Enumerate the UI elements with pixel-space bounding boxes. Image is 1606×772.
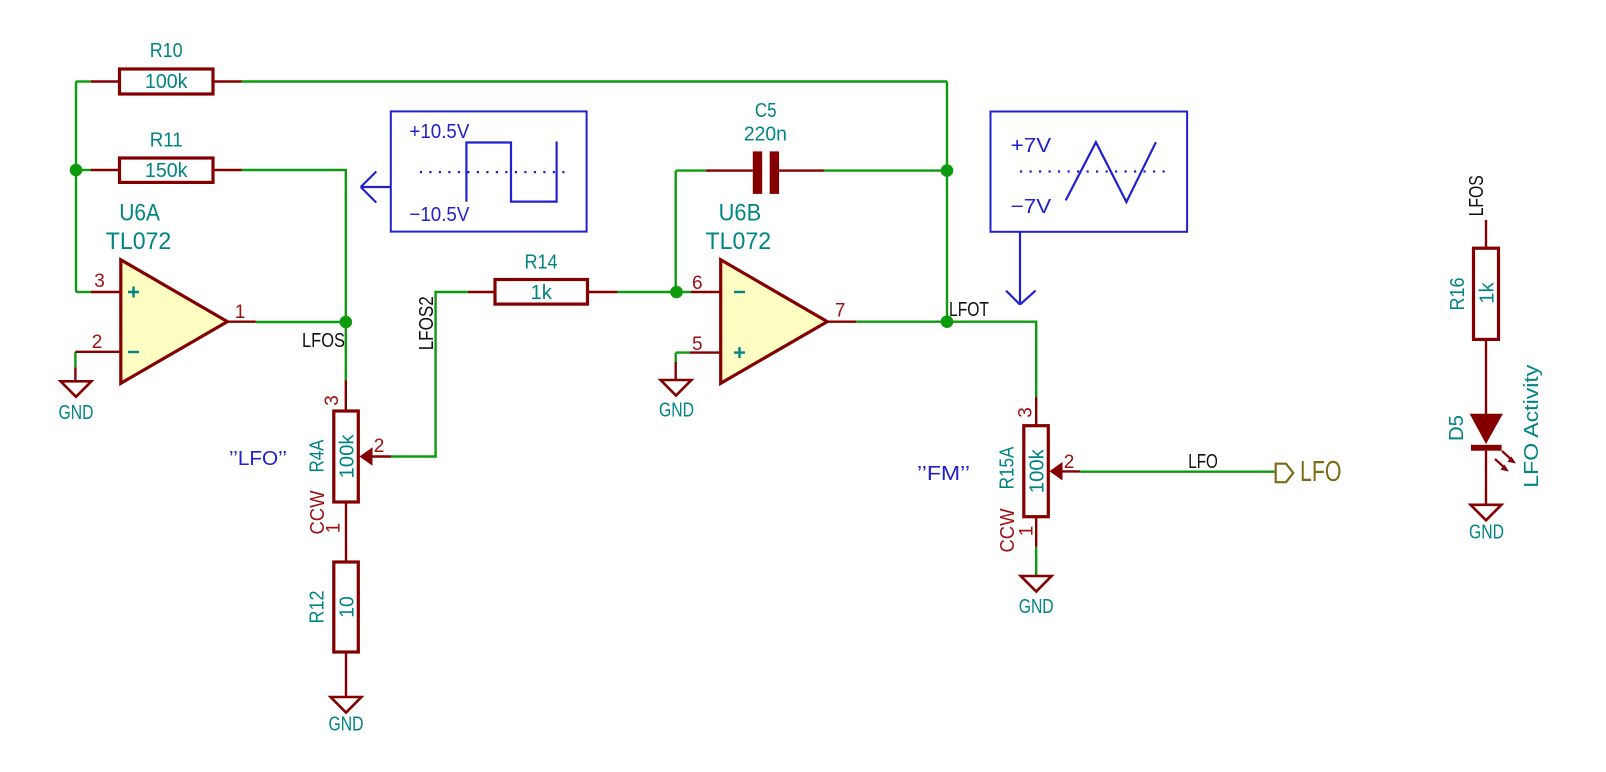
- svg-text:1k: 1k: [1476, 281, 1498, 303]
- wire U6A pin3 stub: [76, 291, 91, 293]
- svg-text:R10: R10: [150, 40, 183, 62]
- svg-text:2: 2: [374, 436, 385, 457]
- ground under R15A: [1019, 576, 1054, 618]
- resistor R16: [1447, 220, 1498, 415]
- svg-text:LFO: LFO: [1188, 451, 1218, 473]
- wire R4A wiper to LFOS2 riser to R14: [391, 292, 468, 457]
- svg-text:CCW: CCW: [307, 490, 329, 534]
- wire node A vertical (R10/R11/pin3 bus): [75, 82, 77, 293]
- svg-text:C5: C5: [755, 100, 777, 122]
- wire U6A pin2 corner: [74, 352, 76, 368]
- svg-text:LFOS: LFOS: [1466, 175, 1488, 216]
- ground under R12: [329, 697, 364, 736]
- svg-text:100k: 100k: [336, 433, 358, 478]
- LED D5: [1446, 415, 1516, 504]
- svg-text:100k: 100k: [1026, 448, 1048, 493]
- svg-text:LFOS: LFOS: [302, 330, 345, 352]
- resistor R10: [91, 40, 242, 94]
- svg-text:1k: 1k: [531, 282, 553, 304]
- wire U6B output to LFOT node: [856, 321, 947, 323]
- svg-text:CCW: CCW: [997, 508, 1019, 552]
- svg-text:LFO Activity: LFO Activity: [1521, 365, 1543, 488]
- svg-text:U6A: U6A: [119, 199, 160, 226]
- wire R10 right to top-right corner: [242, 80, 948, 82]
- wire U6A output to LFOS node: [256, 321, 346, 323]
- op-amp U6B: [690, 199, 856, 383]
- svg-text:220n: 220n: [744, 124, 787, 146]
- resistor R11: [91, 130, 242, 183]
- svg-text:GND: GND: [329, 714, 364, 736]
- arrow to LFOS wire: [361, 172, 391, 203]
- junction node at C5 right: [941, 164, 954, 177]
- svg-text:2: 2: [92, 332, 103, 353]
- junction node LFOS: [340, 316, 353, 329]
- svg-text:−10.5V: −10.5V: [409, 204, 470, 226]
- svg-text:6: 6: [692, 273, 703, 294]
- svg-text:5: 5: [692, 334, 703, 355]
- svg-text:R11: R11: [150, 130, 183, 152]
- svg-text:1: 1: [235, 302, 246, 323]
- ground under U6B pin5: [659, 362, 694, 422]
- waveform annotation box triangle wave: [991, 112, 1188, 305]
- svg-text:−7V: −7V: [1011, 196, 1052, 218]
- wire R15A wiper to LFO port: [1080, 471, 1276, 473]
- svg-text:10: 10: [336, 596, 358, 617]
- global label port LFO: [1276, 456, 1342, 488]
- svg-text:LFOS2: LFOS2: [416, 296, 438, 350]
- svg-text:3: 3: [94, 271, 105, 292]
- svg-text:TL072: TL072: [706, 228, 772, 255]
- capacitor C5: [706, 100, 824, 194]
- svg-text:GND: GND: [1019, 596, 1054, 618]
- svg-text:GND: GND: [1469, 522, 1504, 544]
- wire U6B pin5 corner: [676, 353, 690, 362]
- svg-text:1: 1: [1017, 526, 1038, 537]
- svg-text:U6B: U6B: [719, 199, 762, 226]
- svg-text:TL072: TL072: [106, 228, 172, 255]
- resistor R14: [468, 252, 617, 305]
- svg-text:3: 3: [322, 395, 343, 406]
- svg-text:100k: 100k: [145, 71, 189, 93]
- svg-text:’’FM’’: ’’FM’’: [917, 463, 970, 485]
- wire R11 left: [76, 169, 91, 171]
- svg-text:2: 2: [1064, 452, 1075, 473]
- waveform annotation box square wave: [361, 111, 587, 231]
- emission arrow 1: [1502, 451, 1511, 459]
- wire C5 left: [676, 169, 706, 171]
- svg-text:R12: R12: [306, 591, 328, 624]
- junction node A (R10/R11): [70, 164, 83, 177]
- svg-text:LFOT: LFOT: [949, 299, 989, 321]
- svg-text:7: 7: [835, 301, 846, 322]
- wire right vertical bus (to C5 node and LFOT): [946, 82, 948, 322]
- svg-text:GND: GND: [659, 400, 694, 422]
- wire R15A pin1 to GND: [1035, 547, 1037, 576]
- wire LFOT to R15A pin3: [947, 322, 1036, 397]
- svg-text:R4A: R4A: [306, 439, 328, 473]
- arrow to LFOT wire: [1006, 232, 1036, 305]
- svg-text:R14: R14: [525, 252, 558, 274]
- svg-text:150k: 150k: [145, 160, 189, 182]
- ground under U6A pin2: [59, 367, 94, 424]
- wire R14 right to pin6 node: [617, 291, 690, 293]
- potentiometer R15A: [996, 397, 1080, 553]
- svg-text:3: 3: [1016, 407, 1037, 418]
- wire LFOS node down to R4A: [345, 322, 347, 381]
- potentiometer R4A: [306, 381, 391, 563]
- junction node LFOT: [941, 315, 954, 328]
- ground under D5: [1469, 505, 1504, 544]
- svg-text:GND: GND: [59, 402, 94, 424]
- wire C5 branch vertical to pin6 node: [675, 171, 677, 292]
- svg-text:D5: D5: [1446, 415, 1468, 441]
- junction node at U6B pin6: [670, 286, 683, 299]
- resistor R12: [306, 562, 358, 697]
- wire R10 left to node A: [76, 80, 91, 82]
- svg-text:R15A: R15A: [996, 446, 1018, 489]
- emission arrow 2: [1495, 459, 1504, 467]
- svg-text:+10.5V: +10.5V: [409, 121, 470, 143]
- wire R11 right down to LFOS node: [242, 170, 346, 322]
- op-amp U6A: [75, 199, 255, 383]
- svg-text:’’LFO’’: ’’LFO’’: [229, 448, 287, 470]
- svg-text:+7V: +7V: [1011, 135, 1052, 157]
- wire C5 right to right bus: [824, 169, 947, 171]
- svg-text:R16: R16: [1447, 278, 1469, 311]
- svg-text:LFO: LFO: [1300, 456, 1341, 488]
